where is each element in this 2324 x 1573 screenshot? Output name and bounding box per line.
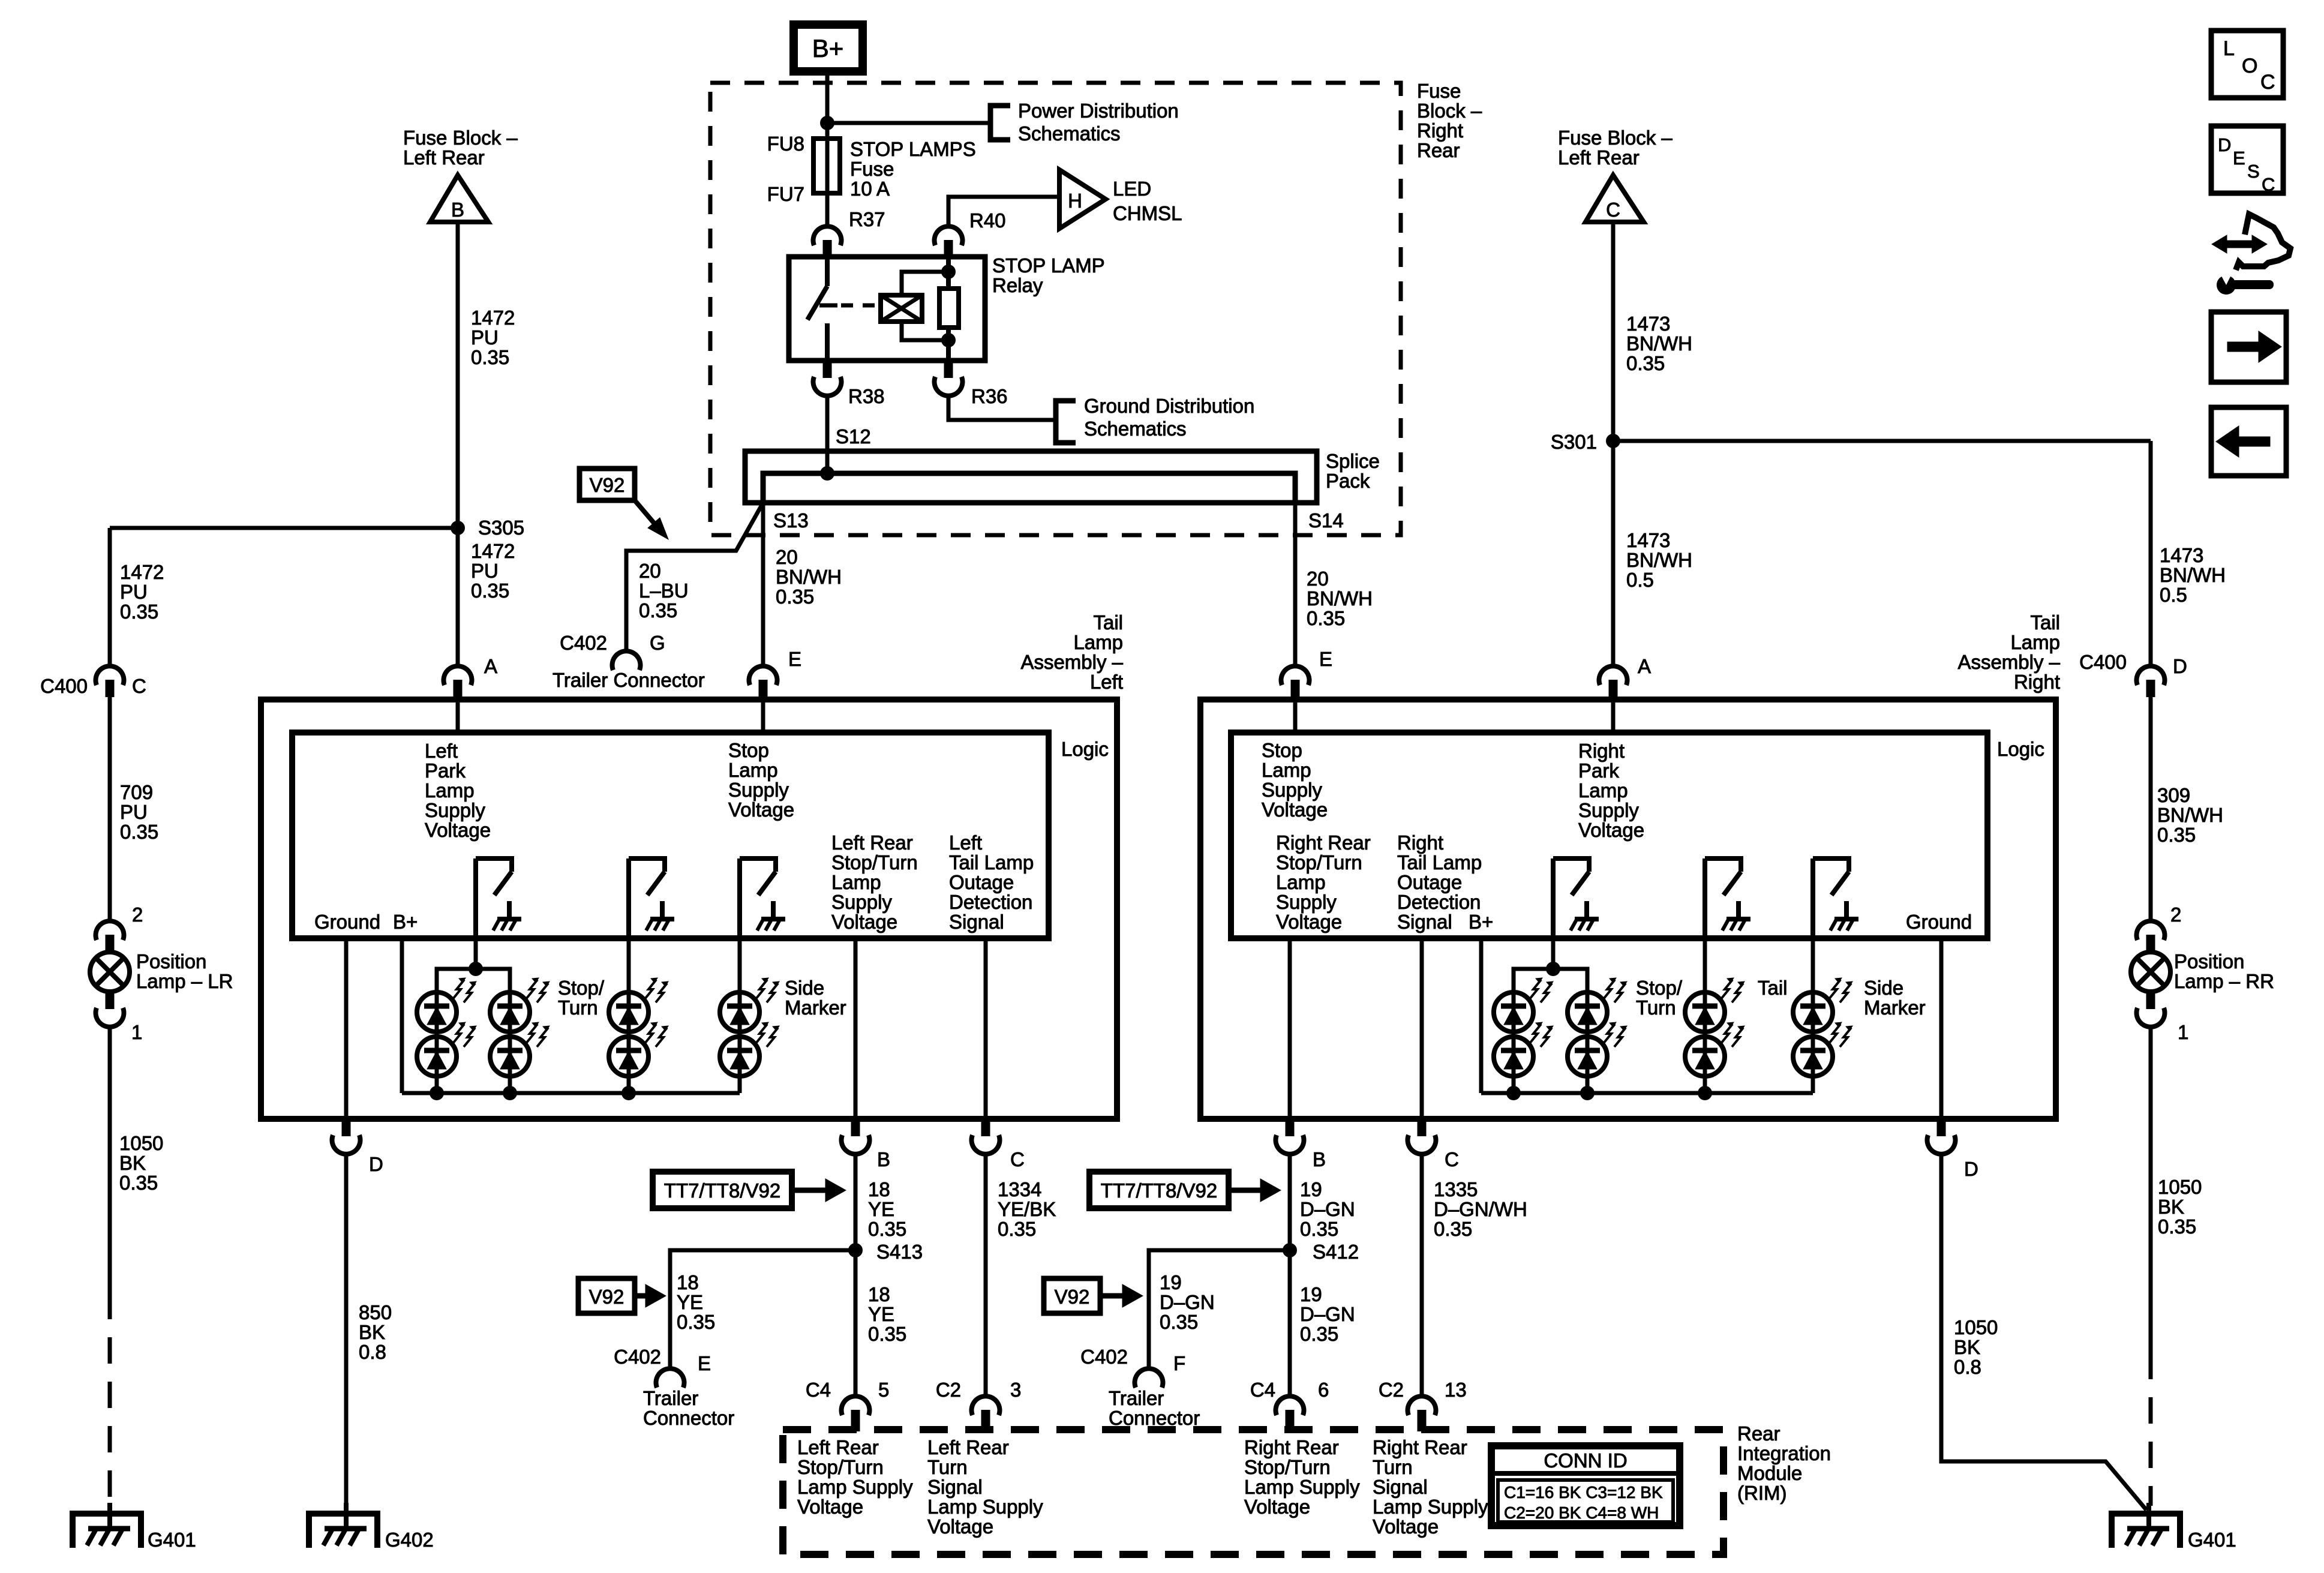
- svg-text:Side: Side: [785, 977, 824, 999]
- connector pin 1 position lamp LR: [106, 989, 115, 1009]
- LED park 3 right: [1568, 992, 1607, 1032]
- wire S305 down to connector A left: [456, 528, 460, 666]
- off-page triangle B: [430, 175, 488, 222]
- connector pin 1 position lamp RR: [2146, 989, 2155, 1009]
- relay switch contact: [825, 257, 830, 286]
- svg-text:1473: 1473: [2160, 544, 2203, 566]
- wire trailer connector G to splice S13: [626, 503, 763, 650]
- node splice to power distribution: [820, 116, 834, 130]
- svg-text:D: D: [2173, 655, 2187, 677]
- svg-text:E: E: [698, 1352, 711, 1374]
- svg-text:Side: Side: [1864, 977, 1903, 999]
- svg-text:Power Distribution: Power Distribution: [1018, 100, 1179, 122]
- node S305: [451, 521, 465, 535]
- svg-text:S: S: [2247, 161, 2260, 182]
- svg-text:B+: B+: [812, 34, 844, 62]
- svg-text:F: F: [1173, 1352, 1185, 1374]
- buffer symbol H LED CHMSL: [1059, 170, 1106, 229]
- wire side marker LED column left: [738, 938, 742, 1093]
- icon box arrow left: [2211, 407, 2286, 476]
- svg-text:Supply: Supply: [728, 779, 789, 801]
- svg-text:C2=20 BK C4=8 WH: C2=20 BK C4=8 WH: [1504, 1503, 1659, 1522]
- bracket power distribution reference: [990, 106, 1010, 140]
- flag box V92 left lower: [578, 1278, 635, 1313]
- svg-text:18: 18: [677, 1271, 699, 1293]
- connector RIM C4 pin 6: [1275, 1396, 1304, 1415]
- svg-text:E: E: [788, 648, 801, 670]
- wire C left assembly to RIM C2-3: [984, 1155, 988, 1396]
- svg-text:20: 20: [776, 546, 798, 568]
- connector pin A right tail lamp: [1599, 666, 1628, 685]
- wire coil bottom to ground side: [902, 322, 948, 340]
- svg-text:1472: 1472: [120, 561, 164, 583]
- driver switch park left: [473, 858, 478, 938]
- svg-text:18: 18: [868, 1283, 890, 1305]
- svg-text:1050: 1050: [2158, 1176, 2202, 1198]
- svg-text:0.35: 0.35: [2158, 1215, 2196, 1238]
- connector C402 pin G trailer connector: [612, 651, 641, 670]
- svg-text:10 A: 10 A: [850, 178, 890, 200]
- svg-text:Turn: Turn: [558, 996, 598, 1019]
- node B+ battery feed: [794, 25, 863, 71]
- LED tail 1 right: [1685, 992, 1725, 1032]
- svg-text:C: C: [2260, 71, 2275, 94]
- connector C400 pin C: [95, 666, 124, 685]
- svg-text:Voltage: Voltage: [797, 1496, 863, 1518]
- svg-text:Park: Park: [1578, 760, 1619, 782]
- svg-text:0.35: 0.35: [120, 821, 158, 843]
- svg-text:Block –: Block –: [1417, 100, 1482, 122]
- node S413: [848, 1243, 863, 1257]
- svg-text:BK: BK: [119, 1152, 146, 1174]
- wire B right assembly to RIM C4-6: [1288, 1155, 1292, 1396]
- svg-text:0.35: 0.35: [639, 599, 677, 622]
- svg-text:Lamp: Lamp: [1276, 871, 1326, 893]
- wire stop/turn LED column left: [627, 938, 631, 1093]
- svg-text:C402: C402: [1080, 1346, 1128, 1368]
- connector pin C left assembly: [981, 1119, 990, 1136]
- svg-text:Left Rear: Left Rear: [403, 146, 485, 169]
- svg-text:Signal: Signal: [949, 911, 1004, 933]
- svg-text:Voltage: Voltage: [425, 819, 491, 841]
- svg-text:0.8: 0.8: [1954, 1356, 1981, 1378]
- svg-text:Tail: Tail: [1093, 611, 1123, 634]
- svg-text:Marker: Marker: [1864, 996, 1926, 1019]
- svg-text:E: E: [2233, 148, 2245, 169]
- node relay bottom junction: [941, 333, 956, 347]
- svg-text:CHMSL: CHMSL: [1113, 202, 1182, 224]
- connector RIM C2 pin 13: [1408, 1396, 1436, 1415]
- tail lamp assembly right outer box: [1200, 700, 2056, 1119]
- svg-text:C402: C402: [614, 1346, 661, 1368]
- driver switch stop/turn left: [626, 858, 631, 938]
- connector pin D right assembly: [1937, 1119, 1946, 1136]
- svg-text:Stop/Turn: Stop/Turn: [831, 851, 918, 873]
- svg-text:G401: G401: [148, 1529, 196, 1551]
- svg-text:Supply: Supply: [1276, 891, 1337, 913]
- svg-text:Stop/: Stop/: [558, 977, 605, 999]
- driver switch side marker right: [1810, 858, 1815, 938]
- svg-text:YE: YE: [868, 1198, 894, 1220]
- svg-text:S13: S13: [773, 509, 809, 532]
- wire tail LED column right: [1703, 938, 1707, 1093]
- svg-text:Left Rear: Left Rear: [831, 831, 913, 854]
- svg-text:Detection: Detection: [1397, 891, 1481, 913]
- svg-text:2: 2: [2170, 903, 2181, 926]
- svg-text:Stop/Turn: Stop/Turn: [797, 1456, 884, 1478]
- wire to power distribution schematics: [827, 121, 990, 125]
- svg-text:C4: C4: [806, 1379, 831, 1401]
- connector RIM C4 pin 5: [842, 1396, 870, 1415]
- svg-text:Right Rear: Right Rear: [1276, 831, 1371, 854]
- wire B+ column right: [1479, 938, 1484, 1093]
- svg-text:Relay: Relay: [992, 274, 1043, 296]
- svg-text:Connector: Connector: [643, 1407, 734, 1429]
- node S12 junction on splice pack: [820, 466, 834, 481]
- wire S301 to right branch: [1613, 439, 2151, 443]
- node S301: [1606, 434, 1620, 448]
- svg-text:Voltage: Voltage: [1262, 798, 1328, 821]
- wire fuse to R37: [825, 193, 830, 226]
- svg-text:B: B: [1313, 1148, 1326, 1170]
- svg-text:D–GN: D–GN: [1300, 1303, 1355, 1325]
- LED side marker 2 right: [1793, 1037, 1833, 1076]
- svg-text:1334: 1334: [998, 1178, 1041, 1200]
- svg-text:20: 20: [1307, 568, 1329, 590]
- svg-text:1335: 1335: [1434, 1178, 1478, 1200]
- icon vehicle with arrow and wrench: [2236, 214, 2290, 270]
- wire S305 to left branch: [110, 526, 458, 530]
- wire B+ column left: [400, 938, 404, 1093]
- ground G401 right: [2112, 1514, 2180, 1548]
- svg-text:0.35: 0.35: [776, 586, 814, 608]
- svg-text:Voltage: Voltage: [1578, 819, 1644, 841]
- wire side marker LED column right: [1811, 938, 1815, 1093]
- svg-text:Fuse Block –: Fuse Block –: [403, 127, 518, 149]
- svg-text:BN/WH: BN/WH: [1626, 549, 1692, 571]
- svg-text:Trailer Connector: Trailer Connector: [553, 669, 705, 691]
- svg-text:Left Rear: Left Rear: [797, 1436, 879, 1458]
- svg-text:Signal: Signal: [1373, 1476, 1428, 1498]
- svg-text:C4: C4: [1250, 1379, 1275, 1401]
- svg-text:Connector: Connector: [1109, 1407, 1200, 1429]
- svg-text:0.35: 0.35: [1626, 352, 1665, 374]
- wire park LED branch right: [1551, 938, 1556, 969]
- svg-text:1473: 1473: [1626, 313, 1670, 335]
- LED park 4 right: [1568, 1037, 1607, 1076]
- svg-text:TT7/TT8/V92: TT7/TT8/V92: [1101, 1179, 1217, 1202]
- LED park 4 left: [490, 1037, 530, 1076]
- svg-text:Turn: Turn: [927, 1456, 968, 1478]
- svg-text:R40: R40: [969, 209, 1006, 232]
- wire lamp RR to G401 dashed: [2149, 1353, 2153, 1506]
- svg-text:Rear: Rear: [1737, 1422, 1780, 1445]
- svg-text:709: 709: [120, 781, 153, 803]
- svg-text:0.35: 0.35: [868, 1323, 906, 1345]
- LED park 2 left: [417, 1037, 457, 1076]
- svg-text:Supply: Supply: [1262, 779, 1322, 801]
- svg-text:Logic: Logic: [1997, 738, 2044, 760]
- svg-text:Turn: Turn: [1636, 996, 1676, 1019]
- svg-text:19: 19: [1300, 1178, 1322, 1200]
- svg-text:Voltage: Voltage: [831, 911, 897, 933]
- svg-text:Lamp Supply: Lamp Supply: [1373, 1496, 1488, 1518]
- svg-text:0.35: 0.35: [119, 1172, 158, 1194]
- wire S12 relay to splice pack: [825, 396, 830, 473]
- svg-text:Lamp: Lamp: [2010, 631, 2060, 653]
- svg-text:Park: Park: [425, 760, 466, 782]
- ground G401 left: [73, 1514, 141, 1548]
- svg-text:Right: Right: [1578, 740, 1625, 762]
- wire S413 to trailer connector E: [670, 1250, 855, 1368]
- svg-text:6: 6: [1318, 1379, 1329, 1401]
- svg-text:BN/WH: BN/WH: [1307, 587, 1373, 610]
- svg-text:Fuse Block –: Fuse Block –: [1558, 127, 1673, 149]
- svg-text:1473: 1473: [1626, 529, 1670, 551]
- wire lamp RR to G401 solid: [2149, 1027, 2153, 1353]
- node S412: [1283, 1243, 1297, 1257]
- svg-text:C400: C400: [40, 675, 88, 697]
- svg-text:PU: PU: [471, 560, 499, 582]
- LED park 1 left: [417, 992, 457, 1032]
- svg-text:1472: 1472: [471, 540, 515, 562]
- svg-text:PU: PU: [471, 326, 499, 349]
- svg-text:Module: Module: [1737, 1462, 1802, 1484]
- connector RIM C2 pin 3: [971, 1396, 999, 1415]
- svg-text:Right: Right: [2014, 671, 2060, 693]
- svg-text:Marker: Marker: [785, 996, 846, 1019]
- svg-text:0.35: 0.35: [120, 601, 158, 623]
- bracket ground distribution reference: [1056, 401, 1076, 443]
- svg-text:Right: Right: [1417, 119, 1463, 142]
- svg-text:BN/WH: BN/WH: [1626, 332, 1692, 355]
- svg-text:3: 3: [1010, 1379, 1021, 1401]
- svg-text:B+: B+: [393, 911, 418, 933]
- svg-text:1: 1: [131, 1021, 142, 1043]
- fuse STOP LAMPS 10A FU8/FU7: [813, 139, 840, 193]
- svg-text:Left Rear: Left Rear: [1558, 146, 1640, 169]
- svg-text:Supply: Supply: [831, 891, 892, 913]
- wire triangle C to S301: [1611, 222, 1616, 441]
- wire outage signal output right: [1420, 938, 1424, 1119]
- svg-text:1050: 1050: [119, 1132, 163, 1154]
- wire connector A into logic right: [1611, 700, 1616, 733]
- svg-text:1472: 1472: [471, 307, 515, 329]
- arrow V92 to wire: [635, 500, 655, 524]
- svg-text:D: D: [1964, 1158, 1978, 1180]
- svg-text:Voltage: Voltage: [1373, 1515, 1439, 1538]
- svg-text:Lamp: Lamp: [1262, 759, 1311, 781]
- svg-text:0.35: 0.35: [2157, 824, 2196, 846]
- logic box left: [292, 733, 1049, 938]
- svg-text:C400: C400: [2079, 651, 2127, 673]
- svg-text:Lamp Supply: Lamp Supply: [927, 1496, 1043, 1518]
- svg-text:C2: C2: [936, 1379, 961, 1401]
- svg-text:5: 5: [878, 1379, 889, 1401]
- svg-text:D: D: [369, 1153, 383, 1175]
- svg-text:Trailer: Trailer: [1109, 1387, 1164, 1409]
- svg-text:1050: 1050: [1954, 1316, 1998, 1338]
- ground G402: [309, 1514, 377, 1548]
- wire R40 to LED CHMSL: [948, 197, 1059, 226]
- svg-text:STOP LAMP: STOP LAMP: [992, 254, 1105, 277]
- LED stop/turn 2 left: [609, 1037, 648, 1076]
- svg-text:BN/WH: BN/WH: [776, 566, 842, 588]
- relay actuator dashed link: [841, 304, 877, 308]
- wire connector E into logic right: [1293, 700, 1298, 733]
- wire connector E into logic left: [761, 700, 765, 733]
- svg-text:Rear: Rear: [1417, 139, 1460, 161]
- svg-text:E: E: [1319, 648, 1332, 670]
- svg-text:Lamp – RR: Lamp – RR: [2174, 970, 2274, 992]
- wire coil top to B+ side: [902, 272, 948, 295]
- svg-text:Lamp: Lamp: [425, 779, 475, 801]
- svg-text:D–GN/WH: D–GN/WH: [1434, 1198, 1527, 1220]
- LED stop/turn 1 left: [609, 992, 648, 1032]
- svg-text:0.5: 0.5: [1626, 569, 1654, 591]
- svg-text:Outage: Outage: [1397, 871, 1462, 893]
- svg-text:Pack: Pack: [1326, 470, 1370, 492]
- LED side marker 2 left: [720, 1037, 759, 1076]
- svg-text:G: G: [650, 632, 665, 654]
- svg-text:Stop/Turn: Stop/Turn: [1244, 1456, 1331, 1478]
- connector pin B right assembly: [1286, 1119, 1295, 1136]
- svg-text:Supply: Supply: [1578, 799, 1639, 821]
- arrow V92 to wire left lower: [635, 1293, 648, 1299]
- svg-text:Fuse: Fuse: [850, 158, 894, 180]
- svg-text:S12: S12: [836, 425, 871, 448]
- logic box right: [1231, 733, 1987, 938]
- flag box V92 right lower: [1044, 1278, 1100, 1313]
- connector pin R36: [944, 361, 953, 378]
- svg-text:Integration: Integration: [1737, 1442, 1831, 1464]
- svg-text:A: A: [484, 655, 497, 677]
- svg-text:Right: Right: [1397, 831, 1443, 854]
- icon box arrow right: [2211, 312, 2286, 382]
- wire ground column left: [344, 938, 349, 1119]
- svg-text:D–GN: D–GN: [1300, 1198, 1355, 1220]
- svg-text:0.35: 0.35: [868, 1218, 906, 1240]
- wire C400 to position lamp LR: [108, 697, 112, 922]
- svg-text:1: 1: [2178, 1021, 2188, 1043]
- svg-text:Turn: Turn: [1373, 1456, 1413, 1478]
- svg-text:Lamp: Lamp: [1578, 779, 1628, 801]
- svg-text:Fuse: Fuse: [1417, 80, 1461, 102]
- svg-text:Stop/Turn: Stop/Turn: [1276, 851, 1362, 873]
- svg-text:Assembly –: Assembly –: [1957, 651, 2060, 673]
- svg-text:Assembly –: Assembly –: [1020, 651, 1123, 673]
- flag box TT7/TT8/V92 left: [653, 1172, 792, 1208]
- svg-text:(RIM): (RIM): [1737, 1482, 1786, 1504]
- svg-text:0.35: 0.35: [1307, 607, 1345, 629]
- driver switch tail right: [1703, 858, 1707, 938]
- node relay top junction: [941, 265, 956, 279]
- connector pin E right tail lamp: [1281, 666, 1310, 685]
- svg-text:309: 309: [2157, 784, 2190, 806]
- svg-text:L–BU: L–BU: [639, 580, 689, 602]
- svg-text:0.35: 0.35: [1300, 1323, 1338, 1345]
- svg-text:Ground Distribution: Ground Distribution: [1084, 395, 1254, 417]
- svg-text:Lamp: Lamp: [1073, 631, 1123, 653]
- connector pin E left tail lamp: [749, 666, 777, 685]
- svg-text:Right Rear: Right Rear: [1244, 1436, 1339, 1458]
- svg-text:850: 850: [359, 1301, 392, 1323]
- icon box DESC: [2211, 126, 2283, 193]
- wire B left assembly to RIM C4-5: [854, 1155, 858, 1396]
- connector pin A left tail lamp: [443, 666, 472, 685]
- svg-text:B: B: [877, 1148, 890, 1170]
- LED side marker 1 left: [720, 992, 759, 1032]
- svg-text:G402: G402: [385, 1529, 434, 1551]
- LED park 2 right: [1494, 1037, 1533, 1076]
- wire R36 to ground distribution schematics: [948, 396, 1056, 420]
- wire triangle B to S305: [456, 222, 460, 528]
- arrow TT7 flag to wire right: [1229, 1188, 1263, 1193]
- arrow TT7 flag to wire left: [792, 1188, 828, 1193]
- wire B+ to fuse FU8: [825, 71, 830, 139]
- svg-text:Signal: Signal: [927, 1476, 983, 1498]
- driver switch park right: [1551, 858, 1556, 938]
- svg-text:Lamp Supply: Lamp Supply: [797, 1476, 913, 1498]
- svg-text:19: 19: [1300, 1283, 1322, 1305]
- svg-text:C: C: [2262, 174, 2275, 195]
- connector pin B left assembly: [851, 1119, 860, 1136]
- svg-text:R38: R38: [848, 385, 885, 407]
- wire lamp LR to G401 solid: [108, 1027, 112, 1293]
- svg-text:PU: PU: [120, 581, 148, 603]
- svg-text:0.35: 0.35: [471, 346, 509, 368]
- connector C400 pin D: [2137, 666, 2165, 685]
- relay coil: [881, 295, 922, 322]
- svg-text:FU8: FU8: [767, 133, 804, 155]
- wire S13 splice to connector E left: [761, 503, 765, 666]
- svg-text:0.35: 0.35: [677, 1311, 715, 1333]
- wire ground column right: [1939, 938, 1944, 1119]
- svg-text:FU7: FU7: [767, 183, 804, 205]
- connector pin R38: [823, 361, 832, 378]
- svg-text:Supply: Supply: [425, 799, 485, 821]
- table CONN ID: [1491, 1446, 1680, 1526]
- svg-text:C402: C402: [560, 632, 607, 654]
- svg-text:Stop: Stop: [1262, 739, 1302, 761]
- svg-text:Signal: Signal: [1397, 911, 1452, 933]
- connector pin R37: [813, 226, 842, 245]
- svg-text:V92: V92: [590, 474, 625, 496]
- LED park 1 right: [1494, 992, 1533, 1032]
- LED park 3 left: [490, 992, 530, 1032]
- relay resistor: [946, 257, 951, 289]
- svg-text:S412: S412: [1313, 1241, 1359, 1263]
- wire S301 down to connector A right: [1611, 441, 1616, 666]
- LED return bus right: [1481, 1091, 1813, 1095]
- svg-text:0.35: 0.35: [1434, 1218, 1472, 1240]
- svg-text:Schematics: Schematics: [1084, 418, 1187, 440]
- wire G402 drop: [344, 1155, 349, 1529]
- svg-text:S301: S301: [1551, 431, 1597, 453]
- splice pack bus: [745, 451, 1317, 503]
- svg-text:B+: B+: [1469, 911, 1493, 933]
- svg-text:0.35: 0.35: [1160, 1311, 1198, 1333]
- svg-text:S305: S305: [478, 517, 524, 539]
- svg-text:C: C: [1010, 1148, 1025, 1170]
- wire stop/turn output left: [854, 938, 858, 1119]
- svg-text:S413: S413: [876, 1241, 923, 1263]
- svg-text:Position: Position: [136, 950, 206, 972]
- svg-text:BN/WH: BN/WH: [2160, 564, 2226, 586]
- svg-text:Position: Position: [2174, 950, 2244, 972]
- svg-text:O: O: [2242, 55, 2257, 77]
- driver switch side marker left: [737, 858, 742, 938]
